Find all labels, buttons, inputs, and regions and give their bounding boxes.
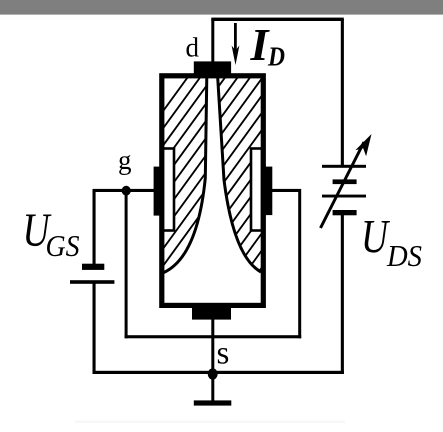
wire: right vertical upper (to UDS battery) — [341, 19, 344, 166]
drain contact — [194, 61, 231, 74]
wire: inner bottom horizontal — [125, 335, 302, 338]
JFET body outline — [162, 76, 263, 306]
svg-text:D: D — [267, 42, 285, 72]
svg-text:g: g — [118, 145, 132, 175]
wire: ground stub — [211, 374, 214, 402]
variable-source arrow shaft — [321, 142, 365, 228]
wire: right vertical lower (UDS battery to bottom) — [341, 214, 344, 374]
ID current arrowhead — [232, 46, 240, 66]
source contact — [192, 308, 231, 320]
node s dot — [208, 368, 218, 379]
channel wall left — [164, 76, 207, 273]
header gray bar — [0, 0, 443, 15]
wire: right gate horizontal — [271, 189, 301, 192]
depletion region hatching (left and right lobes) — [19, 62, 443, 310]
battery UGS negative plate (short thick) — [82, 264, 104, 270]
node g dot — [122, 186, 131, 196]
wire: bottom horizontal — [93, 371, 344, 374]
wire: drain vertical — [211, 19, 214, 63]
battery UDS short plate 2 — [333, 210, 357, 215]
wire: top horizontal from drain to UDS — [211, 18, 343, 21]
wire: g node vertical down — [125, 190, 128, 338]
wire: inner right vertical — [298, 189, 301, 338]
battery UDS short plate 1 — [333, 179, 357, 184]
battery UDS long plate 2 — [322, 195, 366, 198]
channel wall right — [218, 76, 261, 272]
variable-source arrowhead — [355, 134, 371, 156]
wire: source vertical — [211, 318, 214, 374]
svg-text:DS: DS — [386, 238, 422, 273]
gate p+ slot left — [163, 149, 174, 231]
wire: left vertical lower (UGS battery to bottom) — [93, 284, 96, 375]
ground — [194, 400, 232, 405]
ID current arrow shaft — [234, 23, 237, 55]
wire: g horizontal to left gate contact — [93, 189, 154, 192]
svg-text:GS: GS — [46, 228, 80, 263]
gate contact left — [154, 167, 161, 216]
battery UDS long plate 1 — [322, 165, 366, 168]
gate contact right — [265, 167, 272, 216]
battery UGS positive plate (long thin) — [70, 280, 114, 284]
wire: left vertical upper (g to UGS battery) — [93, 189, 96, 265]
svg-text:s: s — [217, 336, 230, 372]
svg-text:d: d — [186, 33, 200, 63]
gate p+ slot right — [251, 149, 262, 231]
